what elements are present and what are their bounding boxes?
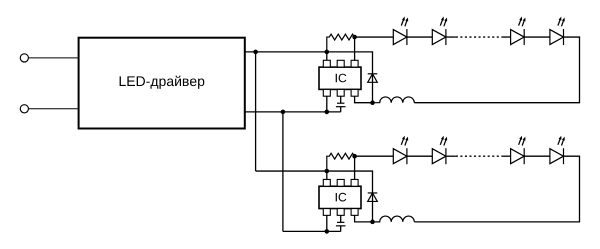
LED HL6	[432, 136, 447, 165]
pin 5 (bottom) U1	[337, 89, 344, 96]
node GND/IC junction	[325, 229, 330, 234]
inductor L1	[373, 97, 415, 103]
node SW junction	[370, 220, 375, 225]
wire VIN to IC pin 1	[326, 171, 328, 180]
wire VIN rail (lower channel)	[256, 171, 373, 193]
wire return from L1 to LED string	[414, 37, 579, 103]
wire dashed (omitted LEDs)	[456, 36, 502, 38]
label IC U2	[336, 193, 347, 202]
wire	[407, 155, 432, 157]
pin 1 (top) U1	[323, 60, 330, 67]
wire GND feed to lower channel	[282, 112, 284, 231]
wire VIN rail (upper channel)	[245, 52, 373, 74]
wire IC pin 4 to GND	[326, 96, 328, 112]
LED HL4	[550, 17, 565, 46]
pin 2 (top) U2	[337, 179, 344, 186]
wire GND rail (upper channel)	[245, 111, 341, 113]
pin 6 (bottom) U1	[351, 89, 358, 96]
capacitor C1	[336, 103, 346, 112]
resistor R2	[327, 153, 355, 171]
wire R2 to LED string	[355, 155, 394, 157]
pin 2 (top) U1	[337, 60, 344, 67]
wire	[502, 36, 511, 38]
wire IC pin 5 to C1	[340, 96, 342, 103]
pin 1 (top) U2	[323, 179, 330, 186]
wire	[446, 36, 456, 38]
wire input 1	[28, 57, 79, 59]
pin 6 (bottom) U2	[351, 209, 358, 216]
wire R1 sense to IC pin 6	[354, 37, 356, 61]
node GND/IC junction	[325, 110, 330, 115]
wire	[446, 155, 456, 157]
wire IC pin 4 to GND	[326, 215, 328, 231]
node GND junction to lower channel	[281, 110, 286, 115]
diode VD1	[368, 74, 378, 103]
node VIN/R1 junction	[325, 50, 330, 55]
LED HL1	[393, 17, 408, 46]
diode VD2	[368, 193, 378, 222]
wire	[524, 155, 550, 157]
wire IC pin 6 to SW node	[355, 96, 373, 103]
LED HL3	[511, 17, 526, 46]
wire dashed (omitted LEDs)	[456, 155, 502, 157]
LED HL5	[393, 136, 408, 165]
LED HL8	[550, 136, 565, 165]
node SW junction	[370, 100, 375, 105]
wire VIN to IC pin 1	[326, 52, 328, 61]
node VIN junction to lower channel	[253, 50, 258, 55]
input terminal X2	[20, 105, 28, 113]
pin 4 (bottom) U2	[323, 209, 330, 216]
label IC U1	[336, 74, 347, 83]
IC U1 body	[319, 67, 361, 89]
pin 4 (bottom) U1	[323, 89, 330, 96]
wire return from L2 to LED string	[414, 156, 579, 222]
LED HL7	[511, 136, 526, 165]
wire	[407, 36, 432, 38]
wire GND rail (lower channel)	[283, 230, 341, 232]
pin 3 (top) U1	[351, 60, 358, 67]
wire R2 sense to IC pin 6	[354, 156, 356, 180]
label LED-driver	[120, 76, 205, 89]
wire VIN feed to lower channel	[255, 52, 257, 171]
wire input 2	[28, 108, 79, 110]
IC U2 body	[319, 186, 361, 208]
LED HL2	[432, 17, 447, 46]
wire	[524, 36, 550, 38]
inductor L2	[373, 216, 415, 222]
input terminal X1	[20, 54, 28, 62]
wire	[502, 155, 511, 157]
pin 5 (bottom) U2	[337, 209, 344, 216]
node VIN/R2 junction	[325, 169, 330, 174]
node R1/LED junction	[352, 35, 357, 40]
wire R1 to LED string	[355, 36, 394, 38]
wire IC pin 5 to C2	[340, 215, 342, 222]
node R2/LED junction	[352, 154, 357, 159]
wire IC pin 6 to SW node	[355, 215, 373, 222]
pin 3 (top) U2	[351, 179, 358, 186]
resistor R1	[327, 34, 355, 52]
LED driver module A1	[79, 38, 245, 129]
capacitor C2	[336, 222, 346, 231]
